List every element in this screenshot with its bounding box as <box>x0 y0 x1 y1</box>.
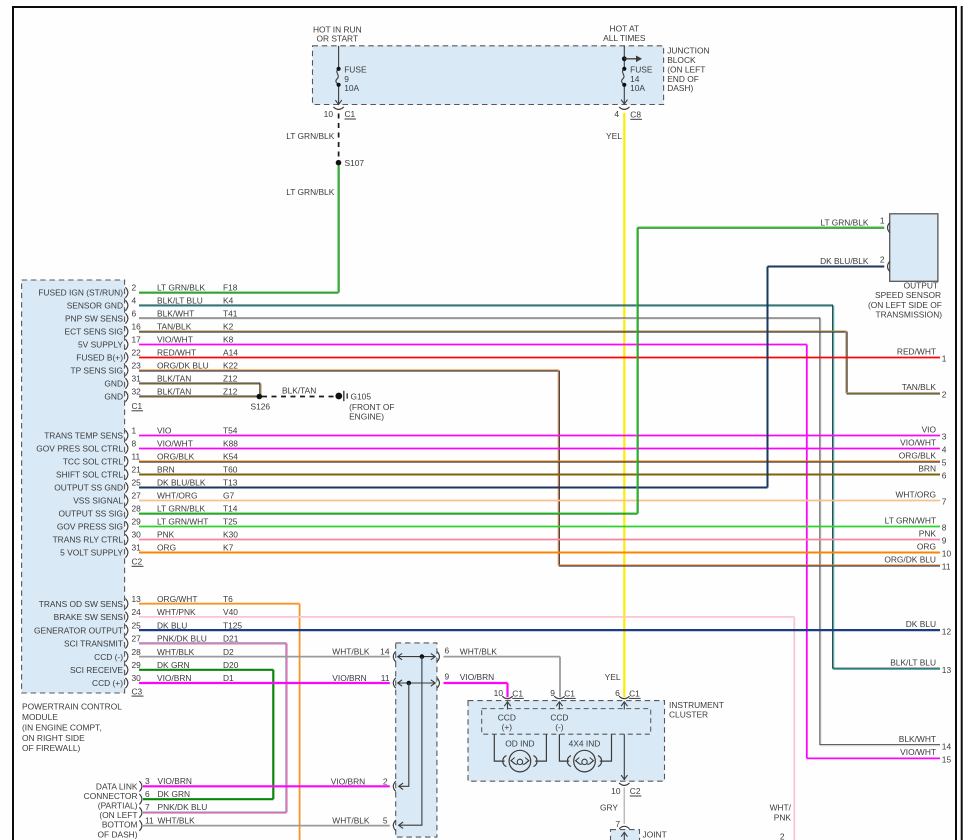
svg-text:D1: D1 <box>223 673 234 683</box>
svg-text:11: 11 <box>381 673 390 683</box>
PCM pin 32 (Z12) <box>104 387 237 402</box>
svg-text:SHIFT SOL CTRL: SHIFT SOL CTRL <box>56 470 123 480</box>
fuse 14 feed tap arrow <box>622 56 642 63</box>
wire ORG/WHT T6 down off page <box>139 604 300 840</box>
svg-text:MODULE: MODULE <box>22 712 58 722</box>
svg-text:OUTPUT SS GND: OUTPUT SS GND <box>54 483 123 493</box>
lamp OD IND <box>494 734 546 772</box>
svg-text:27: 27 <box>132 634 142 644</box>
wire ORG/DK BLU K22 to right edge 11 <box>139 370 940 566</box>
PCM pin 6 (T41) <box>65 309 238 324</box>
svg-text:(+): (+) <box>502 722 513 732</box>
svg-text:T41: T41 <box>223 309 238 319</box>
inline connector left pin bracket <box>393 651 396 661</box>
svg-text:5: 5 <box>383 816 388 826</box>
junction block label <box>667 45 709 93</box>
svg-text:21: 21 <box>132 465 142 475</box>
wire VIO/WHT K88 to right edge 4 <box>139 448 940 450</box>
cluster connector C2 pin 10 <box>611 783 641 796</box>
svg-text:(PARTIAL): (PARTIAL) <box>98 801 138 811</box>
svg-text:24: 24 <box>132 607 142 617</box>
wire VIO T54 to right edge 3 <box>139 435 940 437</box>
svg-text:Z12: Z12 <box>223 387 238 397</box>
svg-text:7: 7 <box>615 819 620 829</box>
svg-text:LT GRN/BLK: LT GRN/BLK <box>157 504 206 514</box>
svg-text:K88: K88 <box>223 439 238 449</box>
svg-text:VIO/BRN: VIO/BRN <box>158 776 192 786</box>
PCM pin 4 (K4) <box>67 296 234 311</box>
internal junction dot row 11 <box>407 681 412 686</box>
connector C8 pin 4 (junction block) <box>614 107 642 120</box>
svg-text:3: 3 <box>942 432 947 442</box>
svg-text:Z12: Z12 <box>223 374 238 384</box>
svg-text:(-): (-) <box>555 722 564 732</box>
svg-text:BRN: BRN <box>918 463 936 473</box>
PCM connector C2 label <box>132 557 144 567</box>
wire DK GRN D20 to data link connector pin 6 <box>139 670 273 799</box>
svg-text:OF FIREWALL): OF FIREWALL) <box>22 743 81 753</box>
right edge terminal 12 DK BLU <box>906 619 952 636</box>
svg-text:9: 9 <box>445 672 450 682</box>
svg-text:BLK/TAN: BLK/TAN <box>157 387 191 397</box>
svg-text:BLK/TAN: BLK/TAN <box>157 374 191 384</box>
svg-text:LT GRN/BLK: LT GRN/BLK <box>286 131 335 141</box>
svg-text:WHT/BLK: WHT/BLK <box>157 647 195 657</box>
inline connector left pin bracket <box>393 781 396 791</box>
wire LT GRN/BLK fuse 9 to splice S107 (dashed) <box>338 114 340 160</box>
svg-text:VIO/WHT: VIO/WHT <box>900 437 936 447</box>
svg-text:CCD (-): CCD (-) <box>94 652 123 662</box>
svg-text:23: 23 <box>132 361 142 371</box>
svg-text:DK GRN: DK GRN <box>158 789 191 799</box>
wire PNK K30 to right edge 9 <box>139 539 940 541</box>
wire GRY cluster to joint connector <box>600 788 624 825</box>
svg-text:16: 16 <box>132 322 142 332</box>
svg-text:31: 31 <box>132 543 142 553</box>
right edge terminal 9 PNK <box>919 528 947 545</box>
svg-text:SENSOR GND: SENSOR GND <box>67 301 123 311</box>
svg-text:RED/WHT: RED/WHT <box>157 348 196 358</box>
PCM label <box>22 702 122 754</box>
svg-text:CLUSTER: CLUSTER <box>669 709 708 719</box>
svg-text:(ON LEFT SIDE OF: (ON LEFT SIDE OF <box>868 300 942 310</box>
svg-text:29: 29 <box>132 517 142 527</box>
svg-text:K2: K2 <box>223 322 234 332</box>
data link connector pin 6 <box>139 789 190 805</box>
wire ORG/BLK K54 to right edge 5 <box>139 460 940 462</box>
svg-text:K7: K7 <box>223 543 234 553</box>
svg-text:WHT/ORG: WHT/ORG <box>157 491 197 501</box>
data link connector pin 7 <box>139 802 207 818</box>
svg-text:11: 11 <box>132 452 141 462</box>
wire VIO/BRN connector pin 9 to cluster pin 10 C1 <box>444 672 508 697</box>
svg-text:WHT/BLK: WHT/BLK <box>460 647 498 657</box>
data link connector pin 3 <box>139 776 192 792</box>
svg-text:4X4 IND: 4X4 IND <box>569 738 601 748</box>
right edge terminal 5 ORG/BLK <box>899 450 947 467</box>
svg-text:C8: C8 <box>630 110 641 120</box>
svg-text:5V SUPPLY: 5V SUPPLY <box>78 340 123 350</box>
svg-text:13: 13 <box>132 594 142 604</box>
svg-text:1: 1 <box>942 354 947 364</box>
svg-text:VIO/WHT: VIO/WHT <box>900 747 936 757</box>
svg-text:10: 10 <box>611 786 621 796</box>
svg-text:FUSE: FUSE <box>630 64 653 74</box>
svg-text:28: 28 <box>132 504 142 514</box>
wire TAN/BLK K2 to right edge 2 <box>139 331 940 394</box>
right edge terminal 4 VIO/WHT <box>900 437 947 454</box>
wire YEL fuse 14 to instrument cluster pin 6 C1 <box>605 113 625 697</box>
svg-text:6: 6 <box>615 688 620 698</box>
splice S107 <box>336 158 365 168</box>
svg-text:WHT/: WHT/ <box>770 803 792 813</box>
svg-text:SCI RECEIVE: SCI RECEIVE <box>70 665 123 675</box>
svg-text:LT GRN/BLK: LT GRN/BLK <box>157 283 206 293</box>
svg-text:3: 3 <box>145 776 150 786</box>
svg-text:TRANS RLY CTRL: TRANS RLY CTRL <box>53 535 124 545</box>
PCM pin 29 (T25) <box>57 517 238 532</box>
inline connector right pin 6 <box>437 645 450 662</box>
wire DK BLU T125 to right edge 12 <box>139 629 940 631</box>
junction block <box>313 46 664 105</box>
svg-text:C2: C2 <box>132 557 143 567</box>
svg-text:RED/WHT: RED/WHT <box>897 346 936 356</box>
svg-text:VIO/WHT: VIO/WHT <box>157 439 193 449</box>
svg-text:(ON LEFT: (ON LEFT <box>99 810 137 820</box>
svg-text:LT GRN/BLK: LT GRN/BLK <box>286 187 335 197</box>
svg-text:2: 2 <box>942 390 947 400</box>
svg-text:WHT/BLK: WHT/BLK <box>332 647 370 657</box>
PCM pin 17 (K8) <box>78 335 234 350</box>
svg-text:28: 28 <box>132 647 142 657</box>
svg-text:D21: D21 <box>223 634 239 644</box>
svg-text:CONNECTOR: CONNECTOR <box>84 791 138 801</box>
svg-text:GOV PRESS SIG: GOV PRESS SIG <box>57 522 123 532</box>
right edge terminal 3 VIO <box>922 424 947 441</box>
PCM connector C3 label <box>132 686 144 696</box>
svg-text:DASH): DASH) <box>667 83 693 93</box>
svg-text:ORG: ORG <box>157 543 176 553</box>
svg-text:10: 10 <box>942 549 952 559</box>
svg-text:C1: C1 <box>345 109 356 119</box>
svg-text:F18: F18 <box>223 283 238 293</box>
svg-text:12: 12 <box>942 626 952 636</box>
PCM pin 27 (D21) <box>64 634 239 649</box>
right edge terminal 14 BLK/WHT <box>899 734 952 751</box>
svg-text:BRN: BRN <box>157 465 175 475</box>
svg-text:GRY: GRY <box>600 802 618 812</box>
svg-text:T14: T14 <box>223 504 238 514</box>
svg-text:6: 6 <box>145 789 150 799</box>
svg-text:ENGINE): ENGINE) <box>349 411 384 421</box>
svg-text:WHT/PNK: WHT/PNK <box>157 607 196 617</box>
wire BLK/WHT T41 to right edge 14 <box>139 318 940 746</box>
svg-text:GND: GND <box>104 379 123 389</box>
inline connector internal bus 14 to 6 <box>398 653 436 659</box>
data link connector label <box>84 781 138 839</box>
svg-text:10: 10 <box>324 109 334 119</box>
svg-text:K4: K4 <box>223 296 234 306</box>
PCM pin 25 (T13) <box>54 478 237 493</box>
svg-text:VSS SIGNAL: VSS SIGNAL <box>73 496 123 506</box>
PCM pin 23 (K22) <box>71 361 239 376</box>
svg-text:ORG/BLK: ORG/BLK <box>157 452 195 462</box>
PCM pin 28 (T14) <box>58 504 237 519</box>
svg-text:17: 17 <box>132 335 142 345</box>
svg-text:2: 2 <box>780 832 785 840</box>
svg-text:ECT SENS SIG: ECT SENS SIG <box>65 327 124 337</box>
svg-text:6: 6 <box>942 471 947 481</box>
svg-text:ORG/DK BLU: ORG/DK BLU <box>157 361 209 371</box>
svg-text:WHT/ORG: WHT/ORG <box>896 489 936 499</box>
svg-text:V40: V40 <box>223 607 238 617</box>
svg-text:31: 31 <box>132 374 142 384</box>
wire BLK/TAN Z12 pin 31 to splice S126 <box>139 383 261 397</box>
svg-text:4: 4 <box>132 296 137 306</box>
wire DK BLU/BLK T13 to output speed sensor pin 2 <box>139 267 884 488</box>
svg-text:ON RIGHT SIDE: ON RIGHT SIDE <box>22 733 85 743</box>
svg-text:TAN/BLK: TAN/BLK <box>157 322 192 332</box>
inline connector internal bus 11 to 9 <box>398 680 436 686</box>
output speed sensor pin 1 <box>820 216 890 233</box>
wire RED/WHT A14 to right edge 1 <box>139 357 940 359</box>
svg-text:BLK/WHT: BLK/WHT <box>899 734 936 744</box>
svg-text:T125: T125 <box>223 620 242 630</box>
splice S126 <box>251 394 271 412</box>
inline connector left pin bracket <box>393 678 396 688</box>
cluster connector C1 pin 6 <box>615 688 640 709</box>
svg-text:15: 15 <box>942 755 952 765</box>
svg-text:LT GRN/WHT: LT GRN/WHT <box>157 517 208 527</box>
svg-text:5: 5 <box>942 458 947 468</box>
cluster connector C1 pin 9 <box>550 688 575 709</box>
svg-text:7: 7 <box>942 497 947 507</box>
instrument cluster label <box>669 700 724 720</box>
wire WHT/PNK V40 down to bottom edge <box>139 617 794 840</box>
svg-text:PNK: PNK <box>157 530 175 540</box>
svg-text:9: 9 <box>550 688 555 698</box>
svg-text:TRANS TEMP SENS: TRANS TEMP SENS <box>44 431 123 441</box>
output speed sensor pin 2 <box>820 254 890 271</box>
powertrain control module <box>22 280 125 693</box>
svg-text:8: 8 <box>132 439 137 449</box>
svg-text:T13: T13 <box>223 478 238 488</box>
svg-text:GENERATOR OUTPUT: GENERATOR OUTPUT <box>34 625 123 635</box>
svg-text:VIO/BRN: VIO/BRN <box>157 673 191 683</box>
svg-text:T60: T60 <box>223 465 238 475</box>
right edge terminal 8 LT GRN/WHT <box>885 515 947 532</box>
svg-text:CCD (+): CCD (+) <box>92 678 123 688</box>
svg-text:K8: K8 <box>223 335 234 345</box>
right edge terminal 1 RED/WHT <box>897 346 947 363</box>
wire LT GRN/WHT T25 to right edge 8 <box>139 526 940 528</box>
inline connector right pin 9 <box>437 672 450 689</box>
PCM pin 30 (D1) <box>92 673 234 688</box>
svg-text:YEL: YEL <box>605 672 621 682</box>
svg-text:S107: S107 <box>345 158 365 168</box>
svg-text:ORG: ORG <box>917 541 936 551</box>
internal junction dot row 14 <box>420 654 425 659</box>
svg-text:D2: D2 <box>223 647 234 657</box>
output speed sensor <box>890 214 938 281</box>
svg-text:K54: K54 <box>223 452 238 462</box>
output speed sensor label <box>868 281 942 320</box>
connector C1 pin 10 (junction block) <box>324 107 356 119</box>
svg-text:DATA LINK: DATA LINK <box>96 781 138 791</box>
wire BRN T60 to right edge 6 <box>139 474 940 476</box>
svg-text:11: 11 <box>145 815 154 825</box>
PCM pin 28 (D2) <box>94 647 234 662</box>
svg-text:OUTPUT: OUTPUT <box>904 281 938 291</box>
svg-text:13: 13 <box>942 665 952 675</box>
PCM pin 24 (V40) <box>54 607 239 622</box>
wire PNK/DK BLU D21 to data link connector pin 7 <box>139 643 287 813</box>
svg-text:JOINT: JOINT <box>643 829 667 839</box>
wire BLK/TAN S126 to ground G105 (dashed) <box>262 386 334 397</box>
cluster connector C1 pin 10 <box>494 688 524 709</box>
svg-text:DK GRN: DK GRN <box>157 660 190 670</box>
svg-text:OF DASH): OF DASH) <box>97 829 137 839</box>
svg-text:WHT/BLK: WHT/BLK <box>158 815 196 825</box>
svg-text:VIO: VIO <box>157 426 172 436</box>
wire VIO/WHT K8 to right edge 15 <box>139 345 940 759</box>
svg-text:FUSED B(+): FUSED B(+) <box>76 353 123 363</box>
svg-text:GOV PRES SOL CTRL: GOV PRES SOL CTRL <box>36 444 123 454</box>
svg-text:14: 14 <box>942 741 952 751</box>
CCD (-) label <box>550 712 568 732</box>
svg-text:(IN ENGINE COMPT,: (IN ENGINE COMPT, <box>22 722 102 732</box>
right edge terminal 11 ORG/DK BLU <box>884 554 951 571</box>
svg-text:25: 25 <box>132 620 142 630</box>
svg-text:4: 4 <box>942 445 947 455</box>
svg-text:32: 32 <box>132 387 142 397</box>
svg-text:BLK/LT BLU: BLK/LT BLU <box>890 658 936 668</box>
svg-text:14: 14 <box>380 647 390 657</box>
svg-text:VIO/WHT: VIO/WHT <box>157 335 193 345</box>
svg-text:9: 9 <box>942 536 947 546</box>
svg-text:LT GRN/BLK: LT GRN/BLK <box>820 217 869 227</box>
fuse F14 10A <box>621 46 653 104</box>
svg-text:T6: T6 <box>223 594 233 604</box>
svg-text:ALL TIMES: ALL TIMES <box>603 33 646 43</box>
svg-text:CCD: CCD <box>498 712 516 722</box>
inline connector left pin bracket <box>393 820 396 830</box>
data link connector pin 11 <box>139 815 195 831</box>
wire ORG K7 to right edge 10 <box>139 552 940 554</box>
svg-text:5 VOLT SUPPLY: 5 VOLT SUPPLY <box>60 548 123 558</box>
svg-text:11: 11 <box>942 562 951 572</box>
svg-text:OUTPUT SS SIG: OUTPUT SS SIG <box>58 509 123 519</box>
svg-text:2: 2 <box>383 776 388 786</box>
wire WHT/BLK D2 to connector pin 14 <box>139 647 390 657</box>
instrument cluster <box>468 701 665 782</box>
svg-text:4: 4 <box>614 109 619 119</box>
svg-text:TP SENS SIG: TP SENS SIG <box>71 366 123 376</box>
svg-text:27: 27 <box>132 491 142 501</box>
svg-text:C1: C1 <box>564 689 575 699</box>
right edge terminal 7 WHT/ORG <box>896 489 947 506</box>
svg-text:D20: D20 <box>223 660 239 670</box>
PCM connector C1 label <box>132 401 144 411</box>
wire LT GRN/BLK F18 PCM pin 2 <box>139 291 339 293</box>
PCM pin 2 (F18) <box>38 283 237 298</box>
svg-text:LT GRN/WHT: LT GRN/WHT <box>885 515 936 525</box>
wire LT GRN/BLK S107 to PCM pin 2 <box>286 165 339 292</box>
svg-text:ORG/DK BLU: ORG/DK BLU <box>884 554 936 564</box>
svg-text:VIO/BRN: VIO/BRN <box>332 673 366 683</box>
svg-text:HOT AT: HOT AT <box>610 24 639 34</box>
svg-text:T54: T54 <box>223 426 238 436</box>
svg-text:G7: G7 <box>223 491 235 501</box>
svg-text:DK BLU: DK BLU <box>157 620 187 630</box>
svg-text:10: 10 <box>494 688 504 698</box>
PCM pin 16 (K2) <box>65 322 234 337</box>
fuse F9 10A <box>335 46 367 105</box>
right edge terminal 6 BRN <box>918 463 946 480</box>
svg-text:GND: GND <box>104 392 123 402</box>
right edge terminal 2 TAN/BLK <box>902 382 947 399</box>
PCM pin 8 (K88) <box>36 439 238 454</box>
svg-text:29: 29 <box>132 660 142 670</box>
svg-text:2: 2 <box>132 283 137 293</box>
PCM pin 30 (K30) <box>53 530 239 545</box>
lamp 4X4 IND <box>559 734 611 772</box>
svg-text:C1: C1 <box>132 401 143 411</box>
svg-text:PNK/DK BLU: PNK/DK BLU <box>158 802 208 812</box>
PCM pin 31 (Z12) <box>104 374 237 389</box>
PCM pin 13 (T6) <box>39 594 233 609</box>
svg-text:YEL: YEL <box>606 131 622 141</box>
svg-text:VIO/BRN: VIO/BRN <box>460 672 494 682</box>
svg-text:30: 30 <box>132 530 142 540</box>
svg-text:C1: C1 <box>629 689 640 699</box>
joint connector pin 7 <box>615 819 629 829</box>
internal wire to pin 2 <box>399 683 409 790</box>
svg-text:2: 2 <box>880 254 885 264</box>
PCM pin 27 (G7) <box>73 491 234 506</box>
svg-text:WHT/BLK: WHT/BLK <box>332 816 370 826</box>
svg-text:DK BLU: DK BLU <box>906 619 936 629</box>
svg-text:PNK: PNK <box>774 813 792 823</box>
internal wire to pin 5 <box>399 657 422 829</box>
wire WHT/BLK DLC pin 11 to connector pin 5 <box>143 816 390 826</box>
svg-text:C3: C3 <box>132 686 143 696</box>
inline connector (instrument cluster harness) <box>396 643 437 837</box>
wire VIO/BRN DLC pin 3 to connector pin 2 <box>143 776 390 786</box>
svg-text:TRANSMISSION): TRANSMISSION) <box>876 309 943 319</box>
PCM pin 1 (T54) <box>44 426 238 441</box>
svg-text:T25: T25 <box>223 517 238 527</box>
svg-text:22: 22 <box>132 348 142 358</box>
svg-text:BOTTOM: BOTTOM <box>102 820 138 830</box>
svg-text:25: 25 <box>132 478 142 488</box>
svg-text:VIO/BRN: VIO/BRN <box>331 776 365 786</box>
svg-text:BLK/TAN: BLK/TAN <box>282 386 316 396</box>
svg-text:BLK/WHT: BLK/WHT <box>157 309 194 319</box>
svg-text:OD IND: OD IND <box>505 738 534 748</box>
svg-text:CCD: CCD <box>550 712 568 722</box>
cluster internal wire to pin 10 C2 <box>621 734 627 780</box>
svg-text:10A: 10A <box>344 83 359 93</box>
svg-text:10A: 10A <box>630 83 645 93</box>
right edge terminal 15 VIO/WHT <box>900 747 951 764</box>
wire VIO/BRN D1 to connector pin 11 <box>139 673 390 683</box>
svg-text:FUSED IGN (ST/RUN): FUSED IGN (ST/RUN) <box>38 288 123 298</box>
ground G105 <box>335 391 394 422</box>
svg-text:S126: S126 <box>251 401 271 411</box>
svg-text:ORG/WHT: ORG/WHT <box>157 594 197 604</box>
svg-text:VIO: VIO <box>922 424 937 434</box>
